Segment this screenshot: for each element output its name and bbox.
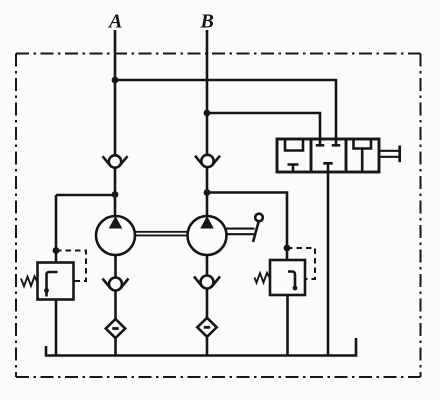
node: junction above right relief valve xyxy=(284,245,291,252)
shaft between pumps xyxy=(135,232,188,236)
tank return manifold line xyxy=(46,338,356,356)
relief valve RV1 (left): body xyxy=(21,251,86,300)
relief valve RV2 pilot line (dashed) xyxy=(287,248,315,279)
node: junction B upper xyxy=(204,110,211,117)
check valve CV1 (line A) xyxy=(103,155,128,167)
svg-text:A: A xyxy=(107,11,122,33)
enclosure border (dash-dot) xyxy=(16,54,421,378)
directional valve U1: body xyxy=(277,139,400,172)
wire: right pump output down to tank xyxy=(206,255,209,356)
node: junction A lower xyxy=(112,191,119,198)
pump M2 (right) xyxy=(188,216,227,255)
relief valve RV1 internal arrow xyxy=(47,272,58,297)
pump M1 (left) xyxy=(96,216,135,255)
wire: branch to left relief valve xyxy=(56,195,115,263)
directional valve U1: centre position ports xyxy=(316,144,340,147)
node: junction above left relief valve xyxy=(53,247,60,254)
wire: left pump output down to tank xyxy=(114,255,117,356)
relief valve RV2 spring xyxy=(255,273,271,283)
wire: line B vertical xyxy=(206,30,209,216)
wire: left relief valve output xyxy=(55,300,58,356)
check valve CV3 (below pump M1) xyxy=(103,278,129,291)
check valve CV2 (line B) xyxy=(195,155,220,167)
lever control on pump M2 xyxy=(227,214,263,242)
node: junction B lower xyxy=(204,189,211,196)
relief valve RV2 (right): body xyxy=(255,248,316,295)
directional valve U1: left position symbol xyxy=(285,139,303,151)
relief valve RV1 pilot line (dashed) xyxy=(56,251,86,282)
wire: branch B to directional valve xyxy=(207,113,320,145)
check valve CV4 (below pump M2) xyxy=(194,276,220,289)
filter F1 (line A) xyxy=(106,319,125,338)
wire: right relief valve output xyxy=(286,295,289,356)
wire: branch to right relief valve xyxy=(207,193,287,261)
svg-text:B: B xyxy=(200,11,214,33)
directional valve U1: right position symbol xyxy=(354,139,372,172)
wire: branch A to directional valve xyxy=(115,80,336,145)
directional valve U1: actuator xyxy=(379,151,399,157)
wire: line A vertical xyxy=(114,30,117,216)
wire: directional valve bottom port to tank xyxy=(327,172,330,356)
filter F2 (line B) xyxy=(197,318,216,337)
relief valve RV2 internal arrow xyxy=(288,272,295,289)
relief valve RV1 spring xyxy=(21,276,38,286)
node: junction A upper xyxy=(112,77,119,84)
